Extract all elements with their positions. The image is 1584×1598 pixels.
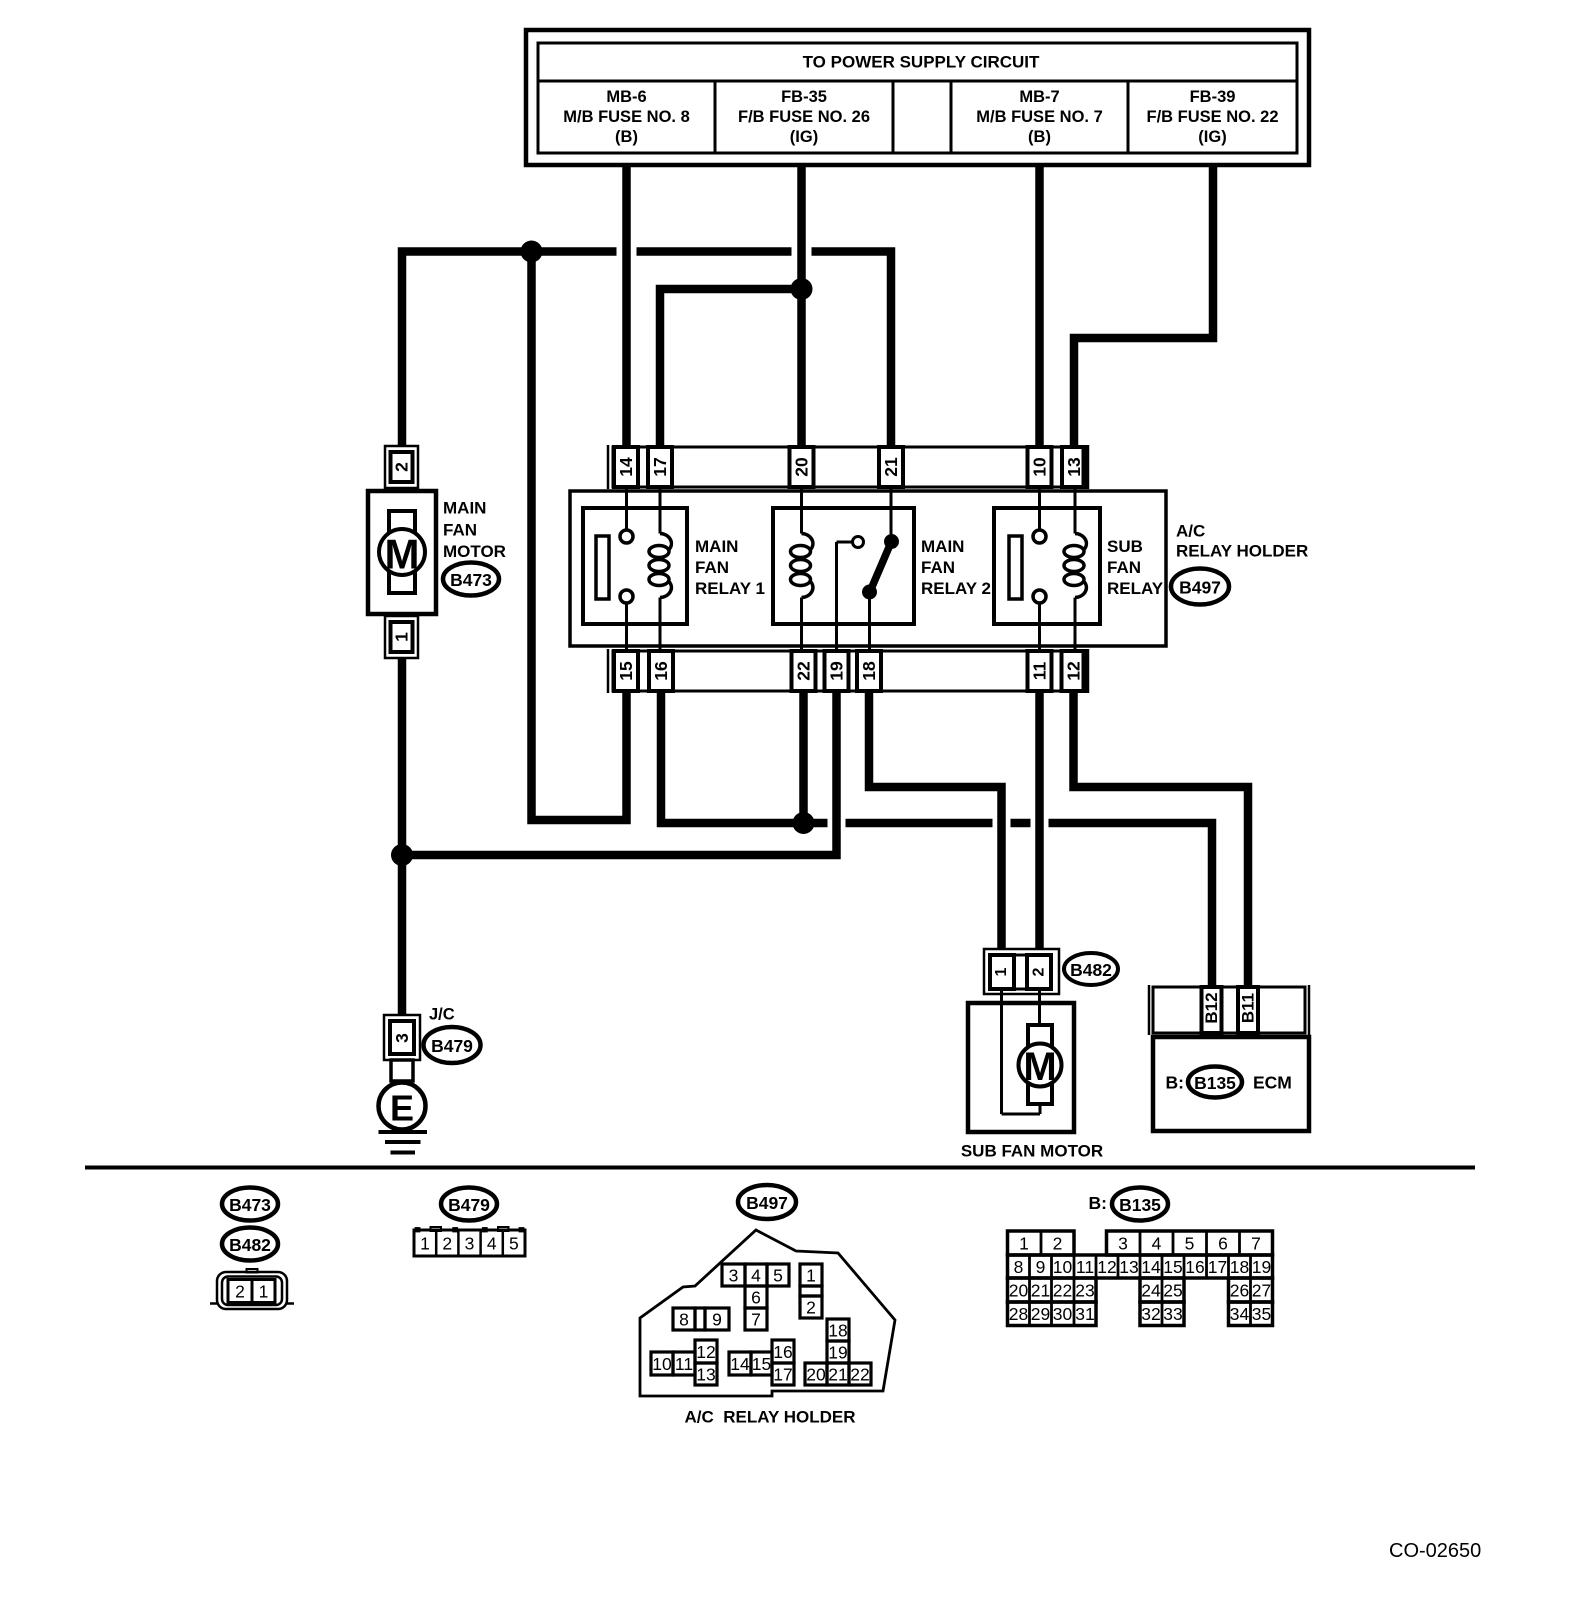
svg-text:(IG): (IG) [1198, 128, 1226, 146]
svg-text:16: 16 [651, 661, 671, 681]
svg-text:22: 22 [794, 661, 814, 681]
svg-text:8: 8 [1014, 1257, 1024, 1277]
svg-text:19: 19 [827, 661, 847, 681]
svg-text:7: 7 [751, 1310, 761, 1330]
svg-text:RELAY 2: RELAY 2 [921, 579, 991, 598]
svg-text:7: 7 [1251, 1234, 1261, 1254]
svg-text:19: 19 [1252, 1257, 1271, 1277]
svg-text:21: 21 [1031, 1281, 1050, 1301]
svg-text:34: 34 [1230, 1304, 1250, 1324]
svg-text:E: E [390, 1088, 414, 1129]
svg-text:19: 19 [828, 1343, 847, 1363]
svg-text:4: 4 [751, 1266, 761, 1286]
svg-text:A/C RELAY HOLDER: A/C RELAY HOLDER [685, 1408, 856, 1427]
svg-text:FB-39: FB-39 [1190, 88, 1236, 106]
svg-text:11: 11 [1030, 661, 1050, 680]
svg-text:14: 14 [1141, 1257, 1161, 1277]
svg-text:RELAY: RELAY [1107, 579, 1164, 598]
svg-text:5: 5 [1185, 1234, 1195, 1254]
svg-text:6: 6 [1218, 1234, 1228, 1254]
svg-text:15: 15 [616, 661, 636, 681]
svg-text:2: 2 [235, 1282, 245, 1302]
svg-text:28: 28 [1009, 1304, 1028, 1324]
svg-text:MAIN: MAIN [921, 537, 964, 556]
svg-text:18: 18 [859, 661, 879, 681]
svg-text:MAIN: MAIN [695, 537, 738, 556]
svg-text:10: 10 [1030, 457, 1050, 477]
svg-text:B135: B135 [1194, 1073, 1236, 1093]
svg-text:32: 32 [1141, 1304, 1160, 1324]
svg-text:24: 24 [1141, 1281, 1161, 1301]
svg-text:B479: B479 [448, 1195, 490, 1215]
svg-text:10: 10 [652, 1354, 672, 1374]
svg-text:33: 33 [1163, 1304, 1182, 1324]
svg-text:M: M [1023, 1045, 1056, 1089]
svg-text:6: 6 [751, 1288, 761, 1308]
svg-text:(B): (B) [615, 128, 638, 146]
svg-text:9: 9 [1036, 1257, 1046, 1277]
svg-text:FAN: FAN [443, 521, 477, 540]
svg-text:3: 3 [465, 1234, 475, 1254]
svg-text:22: 22 [1053, 1281, 1072, 1301]
svg-text:1: 1 [1019, 1234, 1029, 1254]
svg-text:4: 4 [487, 1234, 497, 1254]
svg-text:MOTOR: MOTOR [443, 542, 506, 561]
svg-text:FB-35: FB-35 [781, 88, 827, 106]
svg-text:2: 2 [1053, 1234, 1063, 1254]
svg-text:3: 3 [729, 1266, 739, 1286]
svg-text:ECM: ECM [1253, 1073, 1292, 1093]
svg-text:27: 27 [1252, 1281, 1271, 1301]
svg-text:20: 20 [792, 457, 812, 477]
svg-text:17: 17 [1208, 1257, 1227, 1277]
svg-text:3: 3 [392, 1033, 412, 1043]
svg-text:B497: B497 [746, 1193, 788, 1213]
svg-text:1: 1 [420, 1234, 430, 1254]
svg-text:25: 25 [1163, 1281, 1182, 1301]
svg-text:1: 1 [806, 1266, 816, 1286]
svg-text:1: 1 [392, 632, 412, 642]
svg-text:M: M [385, 531, 420, 578]
svg-text:B12: B12 [1202, 992, 1221, 1023]
svg-text:MB-7: MB-7 [1019, 88, 1059, 106]
svg-text:12: 12 [1064, 661, 1084, 681]
svg-text:M/B FUSE NO. 8: M/B FUSE NO. 8 [563, 108, 690, 126]
svg-text:21: 21 [881, 457, 901, 477]
svg-text:B473: B473 [229, 1195, 271, 1215]
svg-text:11: 11 [675, 1354, 693, 1374]
svg-text:13: 13 [1119, 1257, 1138, 1277]
svg-text:31: 31 [1075, 1304, 1094, 1324]
svg-text:13: 13 [1064, 457, 1084, 477]
svg-text:1: 1 [259, 1282, 269, 1302]
svg-text:11: 11 [1076, 1257, 1094, 1277]
svg-text:21: 21 [828, 1365, 847, 1385]
svg-text:10: 10 [1053, 1257, 1073, 1277]
svg-text:17: 17 [773, 1365, 792, 1385]
svg-text:B497: B497 [1179, 578, 1221, 598]
svg-text:26: 26 [1230, 1281, 1249, 1301]
svg-text:29: 29 [1031, 1304, 1050, 1324]
svg-text:2: 2 [1031, 967, 1048, 976]
svg-text:MB-6: MB-6 [606, 88, 646, 106]
svg-text:B11: B11 [1239, 993, 1258, 1023]
svg-text:B:: B: [1089, 1193, 1107, 1213]
svg-text:RELAY 1: RELAY 1 [695, 579, 765, 598]
svg-text:B482: B482 [229, 1235, 271, 1255]
svg-text:(B): (B) [1028, 128, 1051, 146]
svg-text:13: 13 [696, 1365, 715, 1385]
svg-text:TO POWER SUPPLY CIRCUIT: TO POWER SUPPLY CIRCUIT [803, 53, 1040, 72]
svg-text:17: 17 [650, 457, 670, 476]
svg-text:B473: B473 [450, 570, 492, 590]
svg-text:B135: B135 [1119, 1195, 1161, 1215]
svg-text:B482: B482 [1070, 960, 1112, 980]
svg-text:5: 5 [773, 1266, 783, 1286]
svg-text:1: 1 [993, 967, 1010, 976]
svg-text:B479: B479 [431, 1036, 473, 1056]
svg-text:MAIN: MAIN [443, 499, 486, 518]
svg-text:(IG): (IG) [790, 128, 818, 146]
svg-text:A/C: A/C [1176, 522, 1205, 541]
svg-text:CO-02650: CO-02650 [1389, 1540, 1481, 1562]
svg-text:3: 3 [1118, 1234, 1128, 1254]
svg-text:12: 12 [696, 1342, 715, 1362]
svg-text:35: 35 [1252, 1304, 1271, 1324]
svg-text:F/B FUSE NO. 22: F/B FUSE NO. 22 [1146, 108, 1278, 126]
svg-text:15: 15 [1163, 1257, 1182, 1277]
svg-text:20: 20 [806, 1365, 826, 1385]
svg-text:FAN: FAN [1107, 558, 1141, 577]
svg-text:12: 12 [1097, 1257, 1116, 1277]
svg-text:FAN: FAN [921, 558, 955, 577]
svg-text:16: 16 [773, 1342, 792, 1362]
svg-text:SUB FAN MOTOR: SUB FAN MOTOR [961, 1142, 1103, 1161]
svg-text:5: 5 [509, 1234, 519, 1254]
svg-text:8: 8 [679, 1310, 689, 1330]
svg-text:2: 2 [806, 1298, 816, 1318]
svg-text:M/B FUSE NO. 7: M/B FUSE NO. 7 [976, 108, 1103, 126]
svg-text:SUB: SUB [1107, 537, 1143, 556]
svg-text:2: 2 [442, 1234, 452, 1254]
svg-text:15: 15 [752, 1354, 771, 1374]
svg-text:J/C: J/C [429, 1006, 455, 1024]
svg-text:18: 18 [828, 1321, 847, 1341]
svg-text:30: 30 [1053, 1304, 1073, 1324]
svg-text:B:: B: [1166, 1073, 1184, 1093]
svg-text:20: 20 [1009, 1281, 1029, 1301]
svg-text:22: 22 [850, 1365, 869, 1385]
svg-text:FAN: FAN [695, 558, 729, 577]
svg-text:2: 2 [392, 462, 412, 472]
svg-text:4: 4 [1152, 1234, 1162, 1254]
svg-text:9: 9 [712, 1310, 722, 1330]
svg-text:23: 23 [1075, 1281, 1094, 1301]
svg-text:18: 18 [1230, 1257, 1249, 1277]
svg-text:14: 14 [730, 1354, 750, 1374]
svg-text:F/B FUSE NO. 26: F/B FUSE NO. 26 [738, 108, 870, 126]
svg-text:RELAY HOLDER: RELAY HOLDER [1176, 542, 1308, 561]
svg-text:14: 14 [616, 457, 636, 477]
svg-text:16: 16 [1185, 1257, 1204, 1277]
